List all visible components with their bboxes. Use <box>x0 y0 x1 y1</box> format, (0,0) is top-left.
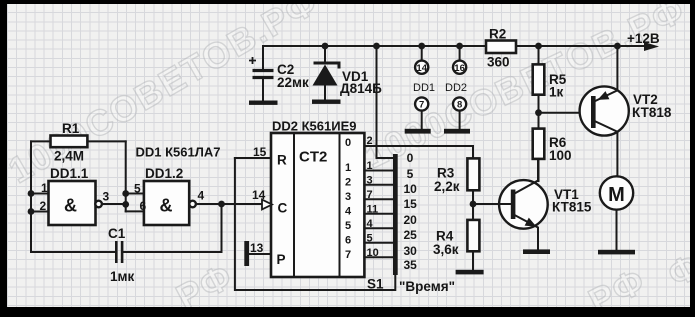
label DD2 <box>445 82 467 94</box>
node R3/R4 junction <box>470 190 511 220</box>
watermark tail C <box>170 255 241 317</box>
S1 position label 35 <box>404 258 418 272</box>
label Vremya <box>399 279 455 294</box>
ground (motor) <box>598 250 635 255</box>
transistor VT2 <box>580 43 672 177</box>
wire gate1 out to gate2 in <box>102 203 126 205</box>
resistor R3 <box>434 158 479 194</box>
resistor R1 <box>31 121 126 164</box>
wire R1 to DD1.2 inputs <box>122 141 144 211</box>
wire output 1 stub (pin 1) <box>364 160 393 172</box>
wire output 5 stub (pin 4) <box>364 218 393 230</box>
watermark band B <box>358 0 692 176</box>
gate DD1.1 <box>40 166 110 225</box>
capacitor C2 <box>249 46 309 101</box>
transistor VT1 <box>499 159 592 250</box>
ground (DD2 pin 8) <box>444 129 470 134</box>
ground (DD1 pin 7) <box>405 129 431 134</box>
pin 15 R input <box>235 145 271 159</box>
wire R input to switch wiper <box>235 158 395 290</box>
motor M <box>600 176 633 250</box>
DD1 power pin 14 <box>415 43 428 74</box>
wire output 2 stub (pin 3) <box>364 174 393 186</box>
wire output 4 stub (pin 11) <box>364 203 393 215</box>
zener diode VD1 <box>313 43 383 100</box>
ground (VT1 emitter) <box>523 249 550 254</box>
resistor R4 <box>433 220 479 270</box>
S1 position label 0 <box>407 151 414 165</box>
watermark band A <box>2 0 326 191</box>
wire +12 to switch contact 0 <box>373 43 393 158</box>
wire +12V rail <box>263 45 645 47</box>
ground (C2) <box>249 101 278 105</box>
S1 position label 25 <box>404 228 418 242</box>
S1 position label 10 <box>404 182 418 196</box>
S1 position label 20 <box>404 213 418 227</box>
wire output 3 stub (pin 7) <box>364 189 393 201</box>
wire output0 to R3 <box>364 146 473 158</box>
pin 13 P input <box>249 241 271 255</box>
wire gate2 out to DD2 clock <box>196 201 262 208</box>
S1 position label 15 <box>404 197 418 211</box>
watermark tail D <box>582 259 653 317</box>
label DD1 <box>413 82 435 94</box>
DD2 power pin 8 <box>453 97 466 129</box>
wire output 7 stub (pin 10) <box>364 247 393 259</box>
IC DD2 K561IE9 counter <box>271 119 364 278</box>
label +12V <box>627 31 660 46</box>
switch S1 wiper bar <box>367 154 398 292</box>
S1 position label 5 <box>407 167 414 181</box>
watermark tail E <box>661 244 695 295</box>
pin 14 C input arrow <box>252 188 272 209</box>
wire output 6 stub (pin 5) <box>364 232 393 244</box>
DD2 power pin 16 <box>453 43 466 74</box>
+12V arrow <box>644 42 659 51</box>
DD1 power pin 7 <box>415 97 428 129</box>
gate DD1.2 <box>134 166 205 225</box>
ground (R4) <box>456 270 484 275</box>
capacitor C1 <box>31 204 222 284</box>
pin 2 label <box>367 135 373 147</box>
ground (VD1) <box>312 100 341 104</box>
S1 position label 30 <box>404 244 418 258</box>
wire DD1.1 input bus <box>28 141 49 252</box>
resistor R6 <box>533 113 572 181</box>
label DD1 К561ЛА7 <box>136 145 221 160</box>
DD2 output digits <box>345 137 352 261</box>
resistor R2 <box>486 27 516 70</box>
resistor R5 <box>533 43 567 113</box>
node R5/R6 junction <box>535 109 591 116</box>
ground (pin 13) <box>244 241 249 266</box>
